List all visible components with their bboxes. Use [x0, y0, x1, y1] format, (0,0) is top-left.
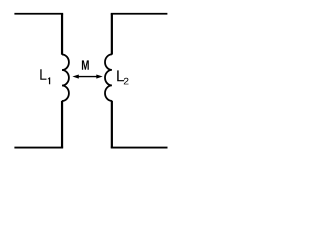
label L2: subscript 2	[124, 78, 129, 85]
wire: left circuit lower vertical	[61, 101, 63, 148]
arrowhead right	[96, 75, 102, 79]
wire: left circuit upper vertical	[61, 14, 63, 55]
wire: right circuit lower vertical	[111, 101, 113, 148]
inductor L2 (coil, 3 bumps left)	[105, 54, 112, 101]
coupling arrow shaft	[77, 76, 98, 78]
label L1: letter L	[40, 69, 46, 80]
wire: left circuit bottom horizontal	[14, 147, 63, 149]
wire: right circuit top horizontal	[111, 13, 168, 15]
wire: right circuit bottom horizontal	[111, 147, 168, 149]
label L1: subscript 1	[48, 77, 50, 84]
arrowhead left	[72, 75, 78, 79]
inductor L1 (coil, 3 bumps right)	[62, 55, 69, 102]
wire: right circuit upper vertical	[111, 14, 113, 55]
wire: left circuit top horizontal	[14, 13, 63, 15]
label L2: letter L	[117, 70, 124, 81]
label M (mutual inductance, bold)	[82, 60, 89, 69]
